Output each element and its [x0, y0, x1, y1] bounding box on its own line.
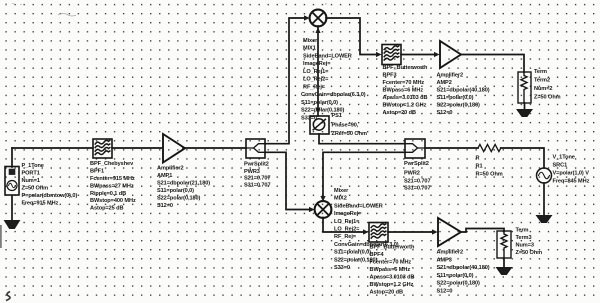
value labels R1	[476, 156, 503, 178]
wire PWR3 bottom output to MIX2 RF	[265, 152, 310, 209]
svg-text:Astop=25 dB: Astop=25 dB	[90, 206, 124, 212]
svg-text:BWstop=1.2 GHz: BWstop=1.2 GHz	[383, 103, 427, 109]
svg-text:RF_Rej=: RF_Rej=	[303, 85, 326, 91]
svg-text:R: R	[476, 156, 480, 162]
svg-text:PORT1: PORT1	[22, 171, 40, 177]
svg-text:BWstop=400 MHz: BWstop=400 MHz	[90, 198, 136, 204]
power splitter PWR2 (mirrored)	[405, 139, 425, 158]
scan artifact marks (decorative)	[0, 3, 327, 301]
svg-text:S11=polar(0,0): S11=polar(0,0)	[334, 250, 371, 256]
ground under SRC1	[537, 216, 552, 223]
svg-text:Phase=90,: Phase=90,	[332, 123, 359, 129]
wire BPF3 to AMP2	[401, 54, 435, 56]
svg-text:AMP3: AMP3	[437, 257, 452, 263]
svg-text:Mixer: Mixer	[303, 38, 318, 44]
svg-text:Term: Term	[516, 228, 529, 234]
svg-text:Mixer: Mixer	[334, 188, 349, 194]
svg-text:LO_Rej2=: LO_Rej2=	[334, 227, 360, 233]
svg-text:Z=50 Ohm: Z=50 Ohm	[534, 95, 561, 101]
value labels PWR2	[404, 161, 431, 192]
mixer MIX1	[310, 10, 327, 27]
arrow down into MIX2 LO	[320, 196, 325, 202]
svg-text:P_1Tone: P_1Tone	[22, 163, 44, 169]
value labels port P1	[22, 163, 78, 207]
svg-text:Freq=845 MHz: Freq=845 MHz	[553, 179, 590, 185]
svg-text:Num=2: Num=2	[534, 86, 552, 92]
value labels AMP2	[437, 73, 490, 117]
arrow down into PS1	[315, 108, 320, 114]
svg-text:S21=dbpolar(40,180): S21=dbpolar(40,180)	[437, 265, 490, 271]
svg-text:S31=0.707: S31=0.707	[404, 186, 431, 192]
svg-text:PwrSplit2: PwrSplit2	[404, 161, 429, 167]
value labels BPF4	[370, 245, 415, 296]
svg-text:S21=dbpolar(21,180): S21=dbpolar(21,180)	[157, 180, 210, 186]
value labels MIX1	[301, 38, 366, 122]
phase shifter PS1	[310, 116, 329, 134]
arrow into AMP2	[434, 52, 440, 57]
value labels AMP3	[437, 250, 490, 295]
svg-text:SRC1: SRC1	[553, 163, 568, 169]
wire R1 to SRC1	[501, 148, 544, 168]
svg-text:Fcenter=915 MHz: Fcenter=915 MHz	[90, 176, 135, 182]
svg-text:Term: Term	[534, 69, 547, 75]
value labels PWR3	[244, 162, 271, 189]
bandpass filter BPF4	[369, 223, 388, 243]
svg-text:BWpass=6 MHz: BWpass=6 MHz	[383, 88, 424, 94]
svg-text:S12=0: S12=0	[437, 110, 453, 116]
svg-text:ConvGain=dbpolar(6.3,0): ConvGain=dbpolar(6.3,0)	[301, 92, 366, 98]
svg-text:Amplifier2: Amplifier2	[437, 73, 464, 79]
svg-text:Term2: Term2	[534, 78, 550, 84]
svg-text:BWstop=1.2 GHz: BWstop=1.2 GHz	[370, 282, 414, 288]
wire BPF1 to AMP1	[112, 147, 162, 149]
svg-text:PWR3: PWR3	[244, 169, 260, 175]
value labels BPF3	[383, 65, 428, 116]
termination Term3	[497, 231, 511, 258]
svg-text:BWpass=27 MHz: BWpass=27 MHz	[90, 183, 134, 189]
value labels PS1	[332, 113, 367, 137]
wire MIX2 IF out to BPF4	[323, 218, 364, 233]
svg-text:S22=polar(0,180): S22=polar(0,180)	[437, 281, 481, 287]
wire MIX1 IF out to BPF3	[326, 18, 377, 55]
svg-text:BPF3: BPF3	[383, 73, 397, 79]
svg-text:SideBand=LOWER: SideBand=LOWER	[303, 54, 352, 60]
svg-text:S33=0: S33=0	[301, 116, 317, 122]
svg-text:Z=50 Ohm: Z=50 Ohm	[516, 250, 543, 256]
svg-text:Amplifier2: Amplifier2	[157, 165, 184, 171]
svg-text:S22=polar(0,180): S22=polar(0,180)	[437, 103, 481, 109]
svg-text:ZRef=50 Ohm: ZRef=50 Ohm	[332, 131, 367, 137]
arrow into BPF4	[363, 229, 369, 234]
op-amp style amplifier AMP1	[163, 134, 185, 163]
value labels SRC1	[553, 155, 590, 185]
svg-text:S11=polar(0,0): S11=polar(0,0)	[437, 95, 474, 101]
svg-text:S21=dbpolar(40,180): S21=dbpolar(40,180)	[437, 88, 490, 94]
wire BPF4 to AMP3	[388, 231, 433, 233]
arrow into BPF3	[376, 52, 382, 57]
amplifier AMP2	[440, 41, 461, 68]
svg-text:PS1: PS1	[332, 113, 342, 119]
value labels AMP1	[157, 165, 210, 209]
mixer MIX2	[315, 201, 332, 218]
source SRC1 (V_1Tone)	[537, 168, 552, 183]
svg-text:Num=1: Num=1	[22, 178, 40, 184]
svg-text:BWpass=6 MHz: BWpass=6 MHz	[370, 267, 411, 273]
svg-text:V_1Tone: V_1Tone	[553, 155, 575, 161]
svg-text:SideBand=LOWER: SideBand=LOWER	[334, 203, 383, 209]
value labels BPF1	[90, 161, 136, 212]
svg-text:S21=0.707: S21=0.707	[404, 178, 431, 184]
wire Term2 to ground	[524, 103, 526, 110]
svg-text:S22=polar(0,180): S22=polar(0,180)	[157, 195, 201, 201]
svg-text:R1: R1	[476, 164, 483, 170]
value labels MIX2	[334, 188, 399, 271]
wire port P1 to ground	[11, 196, 13, 222]
svg-text:BPF1: BPF1	[90, 168, 104, 174]
svg-text:AMP1: AMP1	[157, 173, 172, 179]
svg-text:S21=0.707: S21=0.707	[244, 176, 271, 182]
resistor R1	[478, 144, 501, 151]
wire main row port to BPF1	[12, 147, 93, 149]
wire PWR2 bottom output down to MIX2 LO	[323, 152, 405, 197]
svg-text:Ripple=0.1 dB: Ripple=0.1 dB	[90, 191, 126, 197]
svg-text:MIX1: MIX1	[303, 46, 316, 52]
wire PWR2 to R1	[425, 147, 478, 149]
svg-text:BPF_Butterworth: BPF_Butterworth	[383, 65, 428, 71]
wire SRC1 to ground	[543, 183, 545, 216]
ground under Term3	[497, 268, 512, 275]
svg-text:R=50 Ohm: R=50 Ohm	[476, 172, 503, 178]
svg-text:S31=0.707: S31=0.707	[244, 183, 271, 189]
arrow up into MIX1 LO	[315, 27, 320, 33]
svg-text:Apass=3.0103 dB: Apass=3.0103 dB	[383, 95, 428, 101]
wire PWR3 top output to MIX1 RF	[265, 18, 305, 144]
arrow into AMP3	[432, 229, 438, 234]
svg-text:S11=polar(0,0): S11=polar(0,0)	[301, 100, 338, 106]
port P1 (P_1Tone)	[5, 167, 19, 196]
svg-text:PwrSplit2: PwrSplit2	[244, 162, 269, 168]
wire port P1 up to main row	[11, 148, 13, 167]
svg-text:Fcenter=70 MHz: Fcenter=70 MHz	[370, 260, 412, 266]
svg-text:ImageRej=: ImageRej=	[334, 211, 362, 217]
svg-text:BPF_Chebyshev: BPF_Chebyshev	[90, 161, 134, 167]
svg-text:S33=0: S33=0	[334, 265, 350, 271]
termination Term2	[518, 72, 531, 103]
svg-text:AMP2: AMP2	[437, 80, 452, 86]
svg-text:MIX2: MIX2	[334, 196, 347, 202]
svg-text:P=polar(dbmtow(0),0): P=polar(dbmtow(0),0)	[22, 193, 78, 199]
wire AMP3 to Term3	[461, 229, 504, 233]
svg-text:Z=50 Ohm: Z=50 Ohm	[22, 186, 49, 192]
svg-text:Amplifier2: Amplifier2	[437, 250, 464, 256]
svg-text:Num=3: Num=3	[516, 243, 534, 249]
svg-text:Freq=915 MHz: Freq=915 MHz	[22, 201, 59, 207]
svg-text:Term3: Term3	[516, 235, 532, 241]
svg-text:Astop=20 dB: Astop=20 dB	[383, 110, 417, 116]
ground under Term2	[517, 110, 532, 117]
svg-text:BPF4: BPF4	[370, 252, 385, 258]
svg-text:LO_Rej1=: LO_Rej1=	[303, 69, 329, 75]
svg-text:LO_Rej1=: LO_Rej1=	[334, 219, 360, 225]
wire Term3 to ground	[503, 258, 505, 268]
value labels Term2	[534, 69, 561, 101]
svg-text:Apass=3.0103 dB: Apass=3.0103 dB	[370, 275, 415, 281]
arrow into MIX2 RF	[309, 207, 315, 212]
bandpass filter BPF3	[382, 45, 401, 65]
svg-text:S12=0: S12=0	[157, 203, 173, 209]
ground under port P1	[5, 221, 20, 229]
svg-text:S12=0: S12=0	[437, 288, 453, 294]
svg-text:S11=polar(0,0): S11=polar(0,0)	[157, 188, 194, 194]
power splitter PWR3	[246, 139, 265, 158]
arrow into MIX1 RF	[304, 15, 310, 20]
svg-text:S11=polar(0,0): S11=polar(0,0)	[437, 273, 474, 279]
bandpass filter BPF1	[93, 139, 112, 158]
svg-text:V=polar(1,0) V: V=polar(1,0) V	[553, 171, 590, 177]
wire MIX1 LO down to PS1	[317, 26, 319, 116]
svg-text:Astop=20 dB: Astop=20 dB	[370, 290, 404, 296]
wire AMP2 to Term2	[461, 55, 524, 73]
amplifier AMP3	[438, 218, 461, 246]
svg-text:LO_Rej2=: LO_Rej2=	[303, 77, 329, 83]
value labels Term3	[516, 228, 543, 257]
svg-text:ImageRej=: ImageRej=	[303, 61, 331, 67]
svg-text:PWR2: PWR2	[404, 171, 420, 177]
svg-text:RF_Rej=: RF_Rej=	[334, 234, 357, 240]
svg-text:Fcenter=70 MHz: Fcenter=70 MHz	[383, 80, 425, 86]
svg-text:BPF_Butterworth: BPF_Butterworth	[370, 245, 415, 251]
wire PS1 bottom to PWR2 top output	[319, 134, 405, 144]
wire AMP1 to PWR3	[183, 147, 246, 149]
